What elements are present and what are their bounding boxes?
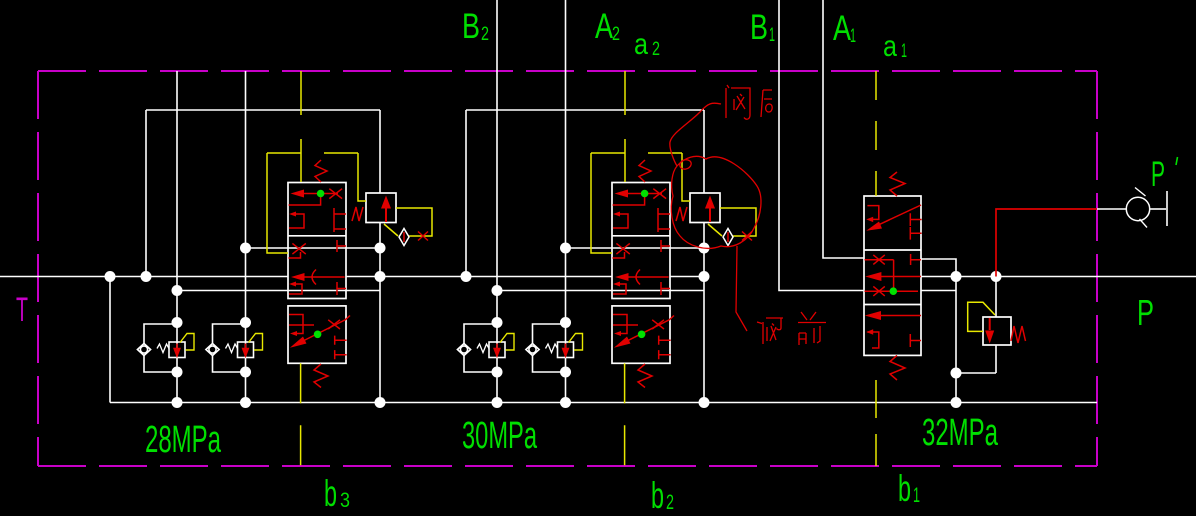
- main relief pilot yellow: [968, 302, 995, 331]
- annotation leader to lower text: [736, 246, 747, 331]
- node: main/feed2 junction: [461, 271, 472, 282]
- valve1 divider 1: [864, 249, 921, 251]
- wire: P main line left segment: [0, 276, 288, 278]
- valve1 mid section: flow line: [880, 276, 921, 278]
- node: rail/A2: [560, 397, 571, 408]
- svg-text:P: P: [1137, 292, 1154, 333]
- valve1 body box: [864, 196, 921, 355]
- wire: LS line y248 section2: [566, 247, 705, 249]
- svg-text:2: 2: [666, 491, 674, 514]
- svg-text:b: b: [651, 475, 664, 516]
- svg-text:B: B: [750, 8, 768, 47]
- annotation text 前 (lower): [798, 312, 826, 345]
- wire: work line y290 section3: [177, 290, 346, 292]
- valve1 top section: diagonal arrow head: [866, 222, 882, 231]
- annotation freehand ellipse around compensator: [671, 156, 761, 248]
- valve1 spring top: [890, 172, 905, 196]
- svg-text:1: 1: [913, 484, 920, 507]
- valve1 mid section: T port top right: [911, 254, 921, 265]
- valve1 top section: bracket arrow: [866, 217, 873, 222]
- wire: P' line after check valve: [1150, 208, 1166, 210]
- wire: port line B2 x497: [496, 0, 498, 403]
- annotation leader to text (valve outlet): [670, 103, 721, 166]
- enclosure border right: [1096, 71, 1098, 466]
- svg-text:a: a: [634, 28, 648, 61]
- directional valve section 3 (left) with compensator: [267, 71, 432, 466]
- svg-text:2: 2: [612, 24, 620, 45]
- valve1 mid section: flow arrow head: [865, 272, 881, 281]
- relief valve assembly A2: [526, 317, 583, 378]
- directional valve section 2 (middle) with compensator: [591, 71, 756, 466]
- valve1 mid section: X on A path: [873, 255, 885, 265]
- valve1 bottom section: flow arrow head: [865, 311, 881, 320]
- valve1 bottom section: pilot bracket: [867, 332, 878, 348]
- label P' apostrophe: [1176, 157, 1178, 165]
- valve1 divider 2: [864, 304, 921, 306]
- wire: feed riser x466: [465, 110, 467, 277]
- node: relief drain x956: [951, 368, 962, 379]
- svg-text:T: T: [16, 291, 28, 329]
- svg-text:28MPa: 28MPa: [145, 419, 222, 461]
- svg-text:b: b: [324, 473, 337, 514]
- P' red line riser: [996, 209, 1097, 277]
- node: main relief inlet x996: [991, 271, 1002, 282]
- node: main/feed3 junction: [141, 271, 152, 282]
- relief valve assembly A3: [206, 317, 263, 378]
- P' check valve circle: [1126, 197, 1149, 220]
- node: rail/B3: [172, 397, 183, 408]
- valve1 spring bottom: [890, 356, 905, 381]
- valve1 top section: T ports right: [910, 213, 921, 239]
- enclosure border bottom: [38, 465, 1097, 467]
- svg-text:3: 3: [340, 489, 350, 512]
- svg-text:a: a: [883, 30, 897, 63]
- P' check valve seat marks: [1135, 188, 1147, 228]
- wire: port line A1 x823 with bend to valve1: [823, 0, 864, 258]
- wire: port line B1 x779 with bend to valve1: [779, 0, 864, 291]
- wire: work line y290 section2: [497, 290, 670, 292]
- wire: feed header y110 section2: [466, 109, 704, 111]
- svg-text:32MPa: 32MPa: [922, 412, 999, 454]
- main relief arrow (red, down): [985, 318, 994, 344]
- svg-text:2: 2: [652, 39, 660, 60]
- wire: P main line segment valve2-valve1: [670, 276, 704, 278]
- svg-text:b: b: [898, 468, 911, 509]
- wire: valve1 right port y290 to riser: [921, 290, 956, 292]
- svg-text:1: 1: [850, 26, 856, 47]
- wire: relief1 outlet drop: [995, 345, 997, 373]
- node: rail/A3: [240, 397, 251, 408]
- main relief body: [983, 317, 1011, 345]
- svg-text:B: B: [462, 7, 480, 46]
- node: rail/B2: [492, 397, 503, 408]
- node: main riser x956: [951, 271, 962, 282]
- main relief spring right: [1011, 326, 1026, 343]
- enclosure border top: [38, 70, 1097, 72]
- wire: LS line y248 section3: [246, 247, 381, 249]
- node: A3/LS junction: [240, 243, 251, 254]
- annotation text 阀 (lower): [757, 318, 783, 344]
- node: A2/LS junction: [560, 243, 571, 254]
- svg-text:A: A: [833, 9, 851, 48]
- node: main/tank junction: [105, 271, 116, 282]
- wire: relief1 drain link: [956, 372, 996, 374]
- wire: P' line inside border (white part): [1097, 208, 1126, 210]
- wire: port line A3 x245.5: [245, 71, 247, 403]
- wire: port line A2 x565.5: [565, 0, 567, 403]
- annotation text 阀 (upper): [726, 85, 750, 119]
- svg-text:1: 1: [901, 41, 907, 62]
- relief valve assembly B3: [137, 317, 194, 378]
- node: B3/work junction: [172, 285, 183, 296]
- valve1 pilot yellow b1 below: [875, 380, 877, 466]
- wire: P main line mid segment: [346, 276, 612, 278]
- wire: feed header y110 section3: [146, 109, 380, 111]
- node: B2/work junction: [492, 285, 503, 296]
- valve1 top section: metering diagonal: [874, 205, 921, 227]
- valve1 pilot yellow a1 from border: [875, 71, 877, 196]
- wire: tank drop from node at x110: [109, 277, 111, 403]
- valve1 bottom section: bracket arrow: [866, 329, 873, 334]
- valve1 mid section: B path: [865, 290, 919, 292]
- wire: tank rail: [110, 402, 1097, 404]
- svg-text:30MPa: 30MPa: [462, 415, 538, 457]
- wire: feed riser x146: [145, 110, 147, 277]
- svg-text:P: P: [1151, 155, 1165, 194]
- valve1 top section: pilot bracket: [867, 206, 878, 220]
- svg-text:A: A: [595, 7, 613, 46]
- node: rail x956: [951, 397, 962, 408]
- valve1 detent green dot: [890, 287, 898, 295]
- wire: relief1 inlet drop: [995, 277, 997, 318]
- wire: port line B3 x177: [176, 71, 178, 403]
- wire: valve1 right port y259 to riser: [921, 259, 956, 277]
- annotation text 后 (upper): [761, 90, 772, 117]
- wire: riser x956: [955, 277, 957, 403]
- relief valve assembly B2: [457, 317, 514, 378]
- wire: P main line right segment: [921, 276, 1196, 278]
- valve1 bottom section: flow line: [880, 315, 921, 317]
- valve1 mid section: A path with X: [865, 260, 894, 291]
- svg-text:1: 1: [769, 25, 775, 46]
- valve1 mid section: X on B path: [873, 286, 885, 296]
- node: P' port tick: [1166, 191, 1168, 226]
- valve1 bottom section: T port right: [910, 334, 921, 347]
- enclosure border left: [37, 71, 39, 466]
- svg-text:2: 2: [481, 24, 489, 45]
